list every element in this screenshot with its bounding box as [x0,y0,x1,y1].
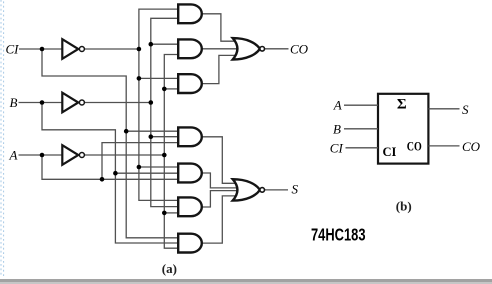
wire block input CI [346,147,379,149]
AND gate C3 [178,74,202,93]
page break dotted blue line 2 [3,1,5,277]
wire AND C1 output to NOR G1 pin1 [202,14,240,41]
svg-text:CO: CO [290,41,309,56]
wire net A-bar branch to AND C3 pin2 [164,88,179,90]
junction A-bar to C3 [162,87,167,92]
svg-text:CO: CO [407,139,422,153]
wire AND C3 output to NOR G1 pin3 [202,55,240,83]
wire AND C2 output to NOR G1 pin2 [202,48,240,50]
wire AND S1 output to NOR G2 pin1 [202,137,240,184]
svg-text:CI: CI [383,145,397,159]
junction B to S2 [113,171,118,176]
wire net A branch to AND S2 pin3 [42,155,179,179]
svg-text:(a): (a) [162,261,177,276]
wire net CI-bar branch to AND S2 pin1 [139,166,179,168]
wire AND S4 output to NOR G2 pin4 [202,196,240,243]
window bottom light bar [0,282,492,284]
window bottom gray bar [0,279,492,282]
svg-text:74HC183: 74HC183 [311,225,366,245]
wire net CI branch down to AND S4 pin1 [42,49,179,238]
AND gate S3 [178,197,202,216]
wire block output CO [428,145,459,147]
junction A riser [100,177,105,182]
wire net CI-bar from inverter U1 [84,48,138,50]
junction B-bar feed [149,100,154,105]
svg-text:B: B [10,95,18,110]
AND gate C2 [178,39,202,58]
wire CI input lead [19,48,63,50]
wire B input lead [19,102,64,104]
junction B-bar to S1 [149,134,154,139]
wire net B-bar from inverter U2 [84,102,150,104]
wire CO output lead [265,48,289,50]
svg-text:A: A [333,98,342,113]
wire net CI-bar bus AND C1 pin1 to AND S3 pin1 [139,9,179,200]
wire net B branch down to AND S4 pin2 [42,103,179,244]
svg-text:Σ: Σ [397,97,407,113]
junction CI-bar to S2 [137,165,142,170]
junction A input branch [40,153,45,158]
wire A input lead [19,154,64,156]
svg-text:CI: CI [6,41,20,56]
wire net A-bar from inverter U3 [84,154,164,156]
junction CI-bar feed [137,47,142,52]
wire block output S [428,108,459,110]
svg-text:S: S [292,182,299,197]
AND gate S4 [178,234,202,253]
svg-text:S: S [462,102,469,117]
wire block input A [344,104,378,106]
wire AND S2 output to NOR G2 pin2 [202,173,240,188]
svg-text:B: B [333,121,341,136]
wire net CI branch to AND S1 pin1 [126,130,179,132]
svg-text:CI: CI [330,140,344,155]
svg-text:A: A [9,147,18,162]
wire net B branch to AND S2 pin2 [115,172,179,174]
wire net B-bar bus AND C1 pin2 to AND S3 pin2 [151,18,179,206]
AND gate S2 [178,164,202,183]
wire net B-bar branch to AND C2 pin1 [151,43,179,45]
junction B input branch [40,100,45,105]
inverter U2 (B) [62,93,78,113]
wire AND S3 output to NOR G2 pin3 [202,191,240,207]
wire block input B [344,128,378,130]
junction B-bar to C2 [149,42,154,47]
junction CI-bar to C3 [137,76,142,81]
wire net B-bar branch to AND S1 pin2 [151,136,179,138]
junction A-bar feed [162,153,167,158]
svg-text:(b): (b) [396,198,412,213]
NOR gate G2 (S) [233,179,260,200]
svg-text:CO: CO [462,139,481,154]
wire S output lead [264,189,288,191]
junction CI to S1 [124,129,129,134]
wire net A riser to AND S1 pin3 [102,143,179,180]
junction A-bar to S3 [162,211,167,216]
inverter U1 (CI) [62,39,78,59]
wire net CI-bar branch to AND C3 pin1 [139,77,179,79]
NOR gate G1 (CO) [233,38,260,59]
AND gate S1 [178,127,202,146]
AND gate C1 [178,4,202,23]
junction CI input branch [40,47,45,52]
full adder block U4 [378,94,428,164]
wire net A-bar branch to AND S3 pin3 [164,212,179,214]
wire net A-bar bus AND C2 pin2 to AND S4 pin3 [164,55,179,249]
page break dotted blue line 1 [0,0,2,277]
inverter U3 (A) [62,145,78,165]
